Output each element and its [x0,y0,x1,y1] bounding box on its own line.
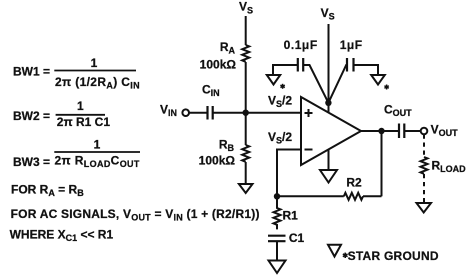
svg-text:1: 1 [94,137,101,151]
resistor R1 [274,196,281,229]
formula BW2 [13,99,110,129]
wire RB to ground [245,162,247,184]
node output junction [378,128,384,134]
wire op-amp ground stem [328,149,330,170]
svg-text:1: 1 [91,56,98,70]
ground star right [371,75,385,85]
wire CIN to input node [213,112,246,114]
svg-text:BW3 =: BW3 = [13,155,50,169]
wire COUT to VOUT terminal [404,130,420,132]
node feedback junction [274,193,280,199]
capacitor 1uF bypass [347,58,354,72]
svg-text:R1: R1 [283,209,299,223]
wire input node to op-amp + [246,112,301,114]
wire feedback vertical [381,131,383,196]
svg-text:100kΩ: 100kΩ [199,154,236,168]
capacitor C1 [268,236,286,242]
wire output to COUT [382,130,400,132]
terminal VIN [182,109,189,116]
resistor RLOAD [421,157,428,174]
svg-text:WHERE XC1 << R1: WHERE XC1 << R1 [10,227,114,243]
resistor RB [242,145,249,162]
svg-text:0.1μF: 0.1μF [284,38,318,52]
svg-text:2π (1/2RA) CIN: 2π (1/2RA) CIN [55,75,140,91]
wire feedback node to op-amp minus [277,150,301,197]
svg-text:100kΩ: 100kΩ [200,58,237,72]
capacitor 0.1uF bypass [298,58,303,72]
ground under RB [239,184,253,193]
svg-text:C1: C1 [289,231,305,245]
wire dashed RLOAD to ground [423,174,425,203]
svg-text:1μF: 1μF [340,38,363,52]
label star right [384,85,388,90]
ground star legend symbol [328,245,341,257]
terminal VOUT [421,128,428,135]
wire VS supply to op-amp [328,24,330,113]
formula BW1 [13,56,140,90]
ground star left [267,75,280,85]
wire 1uF to supply node [328,65,347,103]
formula BW3 [13,137,140,169]
node input junction [243,110,249,116]
label star legend [343,253,348,258]
svg-text:BW2 =: BW2 = [13,109,50,123]
wire 1uF right lead [354,65,379,75]
op-amp U1 [301,97,361,165]
capacitor CIN [208,106,213,120]
wire 0.1uF to supply node [303,65,328,103]
svg-text:FOR RA = RB: FOR RA = RB [11,183,84,199]
wire VS to RA [245,16,247,45]
wire feedback to R2 [363,195,382,197]
wire op-amp output [361,130,382,132]
svg-text:R2: R2 [346,176,362,190]
resistor R2 [344,193,363,200]
ground under C1 [269,261,286,274]
capacitor COUT [399,124,404,139]
resistor RA [242,45,249,62]
wire RA to input node [245,62,247,113]
wire R2 to feedback node [277,195,344,197]
wire C1 to ground [276,241,278,260]
label RB value [199,138,236,168]
label RA value [200,40,237,71]
svg-text:STAR GROUND: STAR GROUND [348,249,439,263]
svg-text:2π R1 C1: 2π R1 C1 [57,115,111,129]
svg-text:BW1 =: BW1 = [13,65,50,79]
ground under RLOAD [417,203,432,213]
svg-text:1: 1 [77,99,84,113]
node supply junction [325,100,331,106]
wire VIN to CIN [189,112,207,114]
label star left [280,84,284,89]
wire node to RB [245,113,247,145]
wire dashed VOUT to RLOAD [423,135,425,158]
ground op-amp [320,170,337,183]
wire 0.1uF left lead [273,65,298,75]
